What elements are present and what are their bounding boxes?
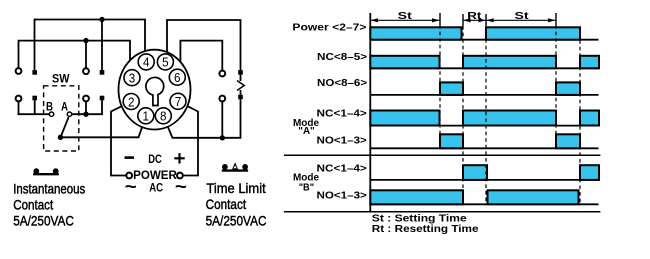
contact terminal circle upper-left — [16, 68, 22, 74]
row 5 NO A pulse 1 — [440, 134, 463, 148]
dim arrow St1 — [370, 18, 439, 22]
pin 4 — [138, 54, 154, 70]
contact terminal square lower x102 — [100, 96, 105, 101]
dashed line x556 — [555, 25, 557, 148]
time limit contact symbol — [222, 162, 248, 170]
contact terminal square upper x240 (8-5) — [238, 70, 243, 75]
wire A contact to lower terminals — [72, 100, 102, 114]
svg-text:2: 2 — [128, 94, 135, 109]
svg-text:5: 5 — [162, 55, 169, 70]
contact terminal square upper x102 — [100, 70, 105, 75]
row 4 NC A bar 2 — [463, 111, 556, 126]
row 7 NO B bar 1 — [370, 190, 463, 204]
svg-text:NO<1–3>: NO<1–3> — [317, 134, 367, 146]
pin 1 — [138, 108, 154, 124]
contact terminal circle upper x222 (8-6) — [219, 71, 225, 77]
svg-text:"B": "B" — [299, 182, 314, 194]
svg-text:SW: SW — [52, 73, 70, 85]
wire stem mid circle — [85, 101, 87, 114]
DC plus sign — [174, 153, 184, 163]
socket ellipse — [119, 50, 191, 130]
svg-text:6: 6 — [174, 70, 181, 85]
svg-text:AC: AC — [149, 183, 163, 195]
power terminal circle right — [177, 173, 183, 179]
junction dot A-wire — [83, 112, 88, 117]
row 7 NO B bar 2 — [488, 190, 579, 204]
svg-text:NC<1–4>: NC<1–4> — [317, 162, 367, 174]
wire pivot to pin1 — [61, 123, 144, 137]
dim tick x556 — [555, 13, 557, 26]
wire contact 8-5 lower segment — [240, 90, 242, 95]
row 6 NC B pulse 1 — [463, 165, 487, 180]
pin 6 — [169, 69, 185, 85]
contact terminal circle lower-left — [16, 96, 22, 102]
row 6 NC B pulse 2 — [580, 165, 599, 180]
svg-text:Contact: Contact — [13, 197, 53, 213]
wire right circle stem down — [221, 101, 223, 137]
junction dot bus B — [83, 38, 88, 43]
svg-text:3: 3 — [129, 71, 136, 86]
axis left vertical — [369, 13, 371, 212]
contact A circle — [67, 112, 71, 116]
svg-text:1: 1 — [143, 109, 150, 124]
svg-text:DC: DC — [148, 154, 162, 166]
SW dashed box — [44, 86, 79, 151]
svg-text:St: St — [398, 10, 413, 22]
svg-text:A: A — [61, 102, 68, 114]
svg-text:7: 7 — [175, 94, 182, 109]
wire pin7 to power right — [183, 105, 198, 176]
dashed line x580 — [579, 27, 581, 204]
svg-text:NO<8–6>: NO<8–6> — [317, 77, 367, 89]
svg-text:POWER: POWER — [133, 170, 177, 182]
wire left lower to B contact — [19, 101, 50, 114]
row 7 baseline — [370, 203, 598, 205]
wire bus A top (pin4 to contacts) — [35, 20, 146, 71]
svg-text:5A/250VAC: 5A/250VAC — [13, 213, 74, 229]
row 2 baseline — [370, 67, 598, 69]
contact terminal square lower x240 (8-5) — [238, 95, 243, 100]
svg-text:Instantaneous: Instantaneous — [13, 180, 85, 196]
pin 8 — [155, 108, 171, 124]
svg-text:"A": "A" — [298, 125, 314, 137]
row 4 NC A bar 3 — [580, 111, 599, 126]
row 6 baseline — [370, 179, 598, 181]
row 5 NO A pulse 2 — [556, 134, 580, 148]
time-delay chevron on 8-5 — [237, 81, 244, 91]
dim arrow Rt — [463, 18, 486, 22]
dim arrow St2 — [486, 18, 556, 22]
junction dot pin8 wire — [220, 135, 225, 140]
keyhole — [146, 77, 164, 105]
dim tick x486 — [485, 14, 487, 26]
svg-text:Rt : Resetting Time: Rt : Resetting Time — [372, 223, 479, 235]
row 2 NC bar 2 — [463, 56, 556, 69]
row 1 baseline — [370, 39, 598, 41]
row 1 Power bar 1 — [370, 27, 461, 39]
svg-text:B: B — [46, 102, 53, 114]
dashed line x486 — [485, 26, 487, 204]
svg-text:4: 4 — [143, 55, 150, 70]
wire bus B branch — [85, 41, 87, 69]
row 3 baseline — [370, 94, 598, 96]
svg-text:St: St — [515, 10, 530, 22]
junction dot bus A — [99, 17, 104, 22]
wire bus A branch to terminal — [101, 20, 103, 71]
svg-text:NC<8–5>: NC<8–5> — [317, 51, 367, 63]
contact terminal circle lower x86 — [83, 96, 89, 102]
svg-text:Contact: Contact — [206, 196, 247, 212]
wire pin8 to right contacts — [166, 99, 240, 137]
svg-text:Rt: Rt — [467, 10, 482, 22]
dim tick x463 — [462, 14, 464, 26]
contact terminal square lower x34 — [32, 96, 37, 101]
wire bus D (pin6 to right contact) — [180, 41, 222, 71]
svg-text:~: ~ — [125, 177, 137, 197]
row 4 NC A bar 1 — [370, 111, 439, 126]
junction dot SW pivot — [58, 135, 63, 140]
contact terminal circle lower x222 (8-6) — [219, 96, 225, 102]
wire pin2 to power left — [111, 105, 126, 175]
svg-text:NC<1–4>: NC<1–4> — [317, 107, 367, 119]
contact terminal square upper x34 — [32, 70, 37, 75]
dashed line x463 — [462, 26, 464, 204]
row 3 NO pulse 1 — [440, 82, 463, 95]
svg-text:8: 8 — [160, 109, 167, 124]
power terminal circle left — [126, 173, 132, 179]
row 4 baseline — [370, 125, 598, 127]
dashed line x440 — [439, 25, 441, 148]
wire stem lower square left — [34, 100, 36, 114]
pin 3 — [124, 70, 140, 86]
row 2 NC bar 3 — [580, 56, 599, 69]
svg-text:5A/250VAC: 5A/250VAC — [206, 212, 267, 228]
instantaneous contact symbol — [33, 168, 59, 174]
dim tick x440 — [439, 13, 441, 26]
row 2 NC bar 1 — [370, 56, 439, 69]
row 5 baseline — [370, 147, 598, 149]
row 1 Power bar 2 — [486, 27, 580, 39]
section separator A/B — [284, 154, 600, 156]
pin 7 — [170, 93, 186, 109]
svg-text:Time Limit: Time Limit — [206, 180, 265, 196]
contact B circle — [49, 112, 53, 116]
switch lever — [61, 117, 69, 137]
DC minus sign — [125, 156, 135, 159]
svg-text:~: ~ — [175, 177, 187, 197]
wire bus C (pin5 to right contact) — [167, 20, 241, 70]
wire contact 8-5 upper segment — [240, 75, 242, 81]
bottom border line — [284, 211, 600, 213]
svg-text:NO<1–3>: NO<1–3> — [317, 190, 367, 202]
wire bus B (pin3 to contacts) — [19, 41, 131, 71]
contact terminal circle upper x86 — [83, 68, 89, 74]
pin 5 — [157, 54, 173, 70]
row 3 NO pulse 2 — [556, 82, 580, 95]
svg-text:Power <2–7>: Power <2–7> — [292, 22, 366, 34]
pin 2 — [123, 94, 139, 110]
